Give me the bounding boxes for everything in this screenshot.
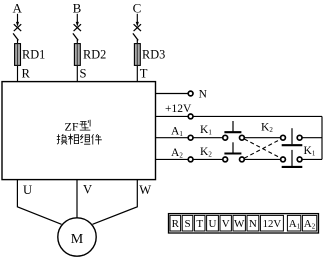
terminal cell W xyxy=(233,215,245,231)
node S label xyxy=(80,67,87,81)
svg-text:RD3: RD3 xyxy=(142,47,165,61)
wire +12V rail xyxy=(156,115,323,117)
label A1 xyxy=(171,125,183,138)
node R label xyxy=(22,67,31,81)
switch blade phase C xyxy=(133,33,138,40)
wire fuse A to box xyxy=(17,65,19,81)
terminal cell N xyxy=(247,215,259,231)
label K1 (right lower contact) xyxy=(304,145,316,158)
svg-text:K2: K2 xyxy=(261,121,273,134)
terminal cell A2 xyxy=(302,215,316,231)
svg-text:V: V xyxy=(222,218,230,230)
wire blade to fuse C xyxy=(136,40,138,44)
label RD2 xyxy=(83,47,106,61)
node B (phase B supply label) xyxy=(73,0,82,15)
wire fuse C to box xyxy=(136,65,138,81)
label K2 (left lower contact) xyxy=(200,146,212,159)
breaker contact X phase C xyxy=(134,24,141,31)
node A (phase A supply label) xyxy=(13,0,23,15)
arrow phase C xyxy=(136,22,139,27)
terminal cell U xyxy=(207,215,219,231)
label RD1 xyxy=(22,47,45,61)
svg-text:T: T xyxy=(140,67,148,81)
svg-text:RD1: RD1 xyxy=(22,47,45,61)
terminal cell 12V xyxy=(260,215,283,231)
wire A2 to K2 contact xyxy=(193,158,223,160)
wire K1 NC to bus (row A2) xyxy=(302,158,322,160)
label K1 (left contact) xyxy=(200,124,212,137)
wire K2 NC to bus (row A1) xyxy=(302,137,322,139)
wire K2 to K1 NC contact (row A2) xyxy=(244,158,281,160)
svg-text:K1: K1 xyxy=(304,145,316,158)
wire A2 from box xyxy=(156,158,189,160)
svg-text:V: V xyxy=(83,183,92,197)
label V xyxy=(83,183,92,197)
arrow phase A xyxy=(16,22,19,27)
wire A1 from box xyxy=(156,137,189,139)
terminal strip outer box xyxy=(169,214,319,233)
fuse RD2 xyxy=(74,44,80,66)
terminal A2 circle xyxy=(188,157,193,162)
label U xyxy=(23,183,32,197)
wire fuse B to box xyxy=(76,65,78,81)
svg-text:M: M xyxy=(71,232,84,247)
svg-text:T: T xyxy=(196,218,203,230)
wire blade to fuse B xyxy=(76,40,78,44)
svg-text:A1: A1 xyxy=(171,125,183,138)
svg-text:S: S xyxy=(80,67,87,81)
svg-text:RD2: RD2 xyxy=(83,47,106,61)
label RD3 xyxy=(142,47,165,61)
terminal cell T xyxy=(194,215,205,231)
label A2 xyxy=(171,147,183,160)
switch blade phase A xyxy=(13,33,18,40)
contact K1 NO (left circle, bar, stem, right circle) xyxy=(223,121,245,140)
contact K2 NO (left circle, bar, stem, right circle) xyxy=(223,142,245,162)
svg-text:W: W xyxy=(139,183,151,197)
breaker contact X phase A xyxy=(14,24,21,31)
svg-text:A1: A1 xyxy=(289,218,301,231)
wire N from box xyxy=(156,93,189,95)
contact K2 NC (circles, stem, bar below) xyxy=(281,128,303,145)
wire phase A drop xyxy=(17,14,19,22)
svg-text:ZF: ZF xyxy=(65,119,79,133)
wire V output xyxy=(76,180,78,218)
svg-text:S: S xyxy=(184,218,190,230)
wire W output xyxy=(93,180,138,225)
wire K1 to K2 NC contact (row A1) xyxy=(244,137,281,139)
label W xyxy=(139,183,151,197)
fuse RD1 xyxy=(15,44,21,66)
terminal +12V circle xyxy=(188,114,193,119)
terminal cell V xyxy=(220,215,231,231)
svg-text:N: N xyxy=(249,218,257,230)
wire A1 to K1 contact xyxy=(193,137,223,139)
terminal cell A1 xyxy=(287,215,300,231)
terminal cell R xyxy=(170,215,181,231)
svg-text:A: A xyxy=(13,0,23,15)
wire +12V right bus down xyxy=(321,116,323,159)
label +12V xyxy=(165,103,192,115)
wire U output xyxy=(17,180,61,225)
wire phase C drop xyxy=(136,14,138,22)
svg-text:+12V: +12V xyxy=(165,103,192,115)
terminal cell S xyxy=(182,215,193,231)
terminal N circle xyxy=(188,91,193,96)
svg-text:K2: K2 xyxy=(200,146,212,159)
breaker contact X phase B xyxy=(74,24,81,31)
svg-text:R: R xyxy=(172,218,180,230)
node C (phase C supply label) xyxy=(133,0,142,15)
svg-text:K1: K1 xyxy=(200,124,212,137)
mechanical link dashed X xyxy=(244,139,281,158)
svg-text:U: U xyxy=(209,218,217,230)
svg-text:R: R xyxy=(22,67,31,81)
node T label xyxy=(140,67,148,81)
label ZF xing (module name line 1) xyxy=(65,119,91,133)
contact K1 NC (circles, stem, bar below) xyxy=(281,150,303,167)
switch blade phase B xyxy=(73,33,78,40)
motor M xyxy=(58,218,96,256)
label K2 (right contact) xyxy=(261,121,273,134)
label huan-xiang-zu-jian (module name line 2) xyxy=(57,134,102,145)
terminal A1 circle xyxy=(188,135,193,140)
svg-text:C: C xyxy=(133,0,142,15)
svg-text:B: B xyxy=(73,0,82,15)
ZF module U1 box xyxy=(2,82,156,180)
svg-text:A2: A2 xyxy=(171,147,183,160)
svg-text:A2: A2 xyxy=(304,218,316,231)
fuse RD3 xyxy=(134,44,140,66)
wire phase B drop xyxy=(76,14,78,22)
label N xyxy=(199,88,208,100)
svg-text:12V: 12V xyxy=(263,218,282,230)
svg-text:U: U xyxy=(23,183,32,197)
arrow phase B xyxy=(76,22,79,27)
svg-text:W: W xyxy=(234,218,245,230)
svg-text:N: N xyxy=(199,88,208,100)
wire blade to fuse A xyxy=(17,40,19,44)
